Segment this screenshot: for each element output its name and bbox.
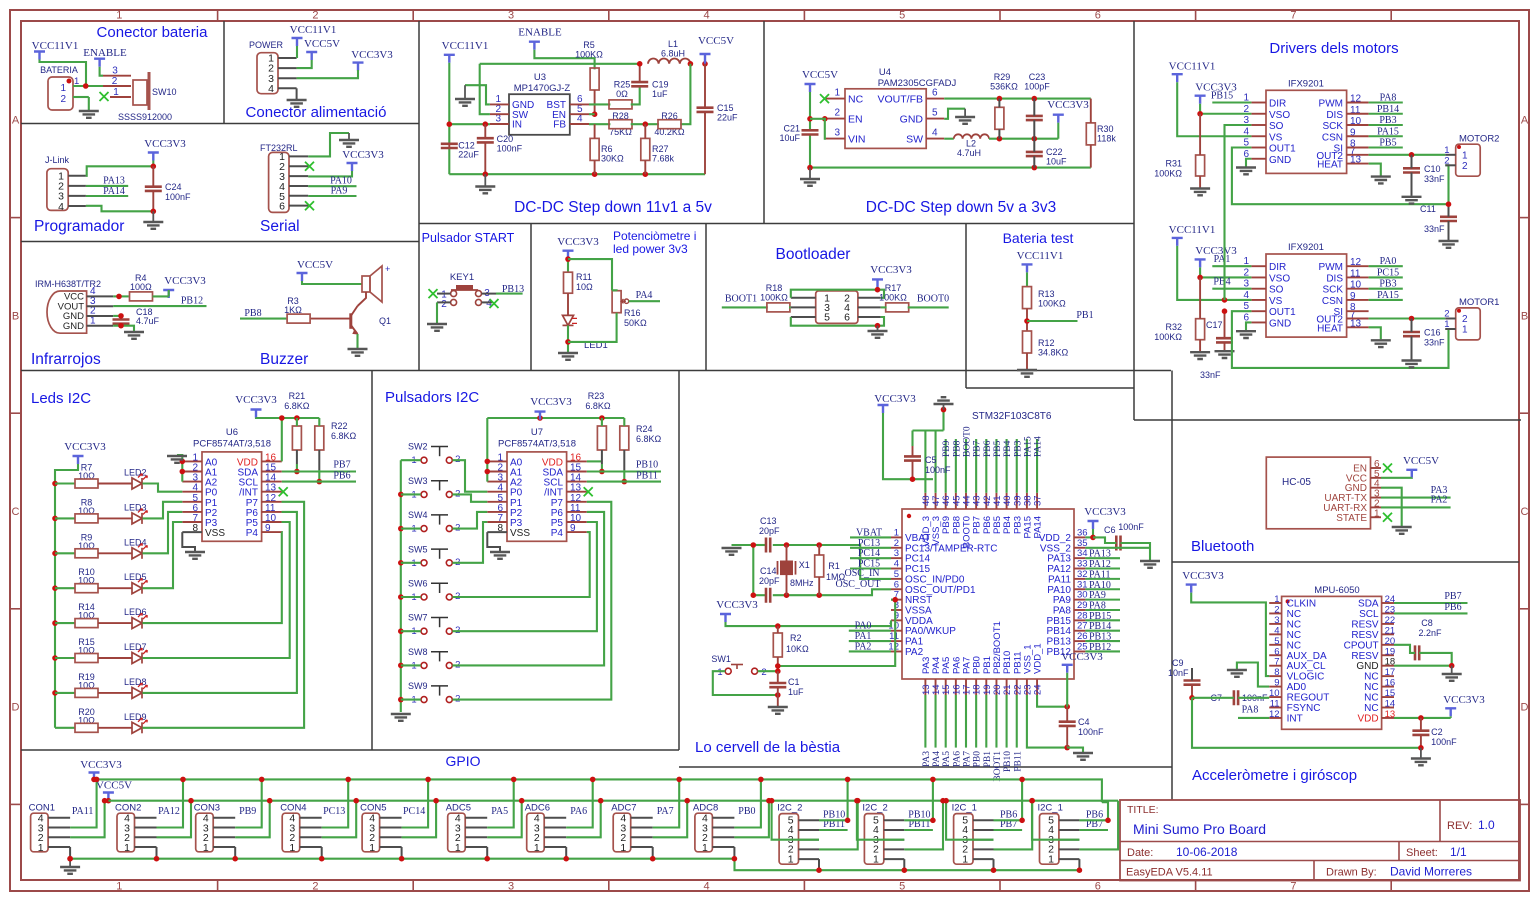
svg-text:PA5: PA5 — [942, 751, 952, 767]
svg-text:2: 2 — [1274, 604, 1279, 615]
svg-text:SW9: SW9 — [408, 681, 428, 691]
no-connect X KEY1 pin1 — [429, 289, 438, 298]
svg-text:VCC3V3: VCC3V3 — [1195, 82, 1237, 94]
svg-text:D: D — [12, 702, 20, 714]
net VCC3V3 stm32 left — [720, 614, 731, 622]
ground ad0 — [1227, 670, 1247, 677]
svg-text:10-06-2018: 10-06-2018 — [1176, 845, 1238, 859]
svg-text:33nF: 33nF — [1424, 338, 1445, 348]
svg-text:B: B — [1521, 310, 1528, 322]
svg-text:PA9: PA9 — [331, 186, 348, 197]
svg-text:VSS: VSS — [205, 528, 225, 539]
ground dcdc2 — [809, 168, 811, 178]
svg-text:MP1470GJ-Z: MP1470GJ-Z — [514, 83, 571, 94]
ground buzzer — [348, 349, 368, 356]
wire U7 vcc top rail — [487, 417, 624, 419]
svg-text:6: 6 — [932, 88, 938, 99]
svg-text:1: 1 — [116, 881, 122, 893]
svg-text:BOOT1: BOOT1 — [993, 751, 1003, 782]
pin stubs ADC5 — [465, 817, 487, 819]
junction vcc bootloader — [875, 287, 881, 293]
wire SW1 right to C1 node — [758, 670, 778, 672]
svg-text:VCC3V3: VCC3V3 — [1195, 245, 1237, 257]
svg-text:HEAT: HEAT — [1317, 323, 1343, 334]
svg-text:22: 22 — [1385, 615, 1396, 626]
svg-text:R22: R22 — [331, 421, 348, 431]
wire CON4 pin3 to 3v3 bus — [322, 779, 349, 827]
wire VCC3V3 stem down — [1057, 123, 1059, 139]
svg-text:16: 16 — [1385, 678, 1396, 689]
svg-text:VCC3V3: VCC3V3 — [235, 394, 277, 406]
net VCC3V3 leds U6 — [251, 410, 262, 418]
wire I2C_1 pin5 pin4 to 3v3 — [994, 779, 1023, 820]
svg-text:Bateria test: Bateria test — [1003, 230, 1074, 246]
svg-text:20: 20 — [1385, 636, 1396, 647]
svg-text:EasyEDA V5.4.11: EasyEDA V5.4.11 — [1126, 867, 1213, 879]
svg-text:GND: GND — [1269, 318, 1291, 329]
junction dcdc2 bottom — [807, 165, 813, 171]
svg-text:Drawn By:: Drawn By: — [1326, 867, 1377, 879]
svg-text:BOOT1: BOOT1 — [725, 294, 757, 305]
wire PB8 to R3 — [240, 318, 286, 320]
net VCC3V3 leds rail — [73, 456, 84, 464]
svg-text:7: 7 — [1290, 881, 1296, 893]
ground bateria — [79, 111, 99, 118]
svg-text:100KΩ: 100KΩ — [1154, 332, 1182, 342]
svg-text:LED9: LED9 — [124, 712, 147, 722]
svg-text:C21: C21 — [783, 124, 800, 134]
net VCC3V3 drivers — [1195, 96, 1206, 104]
net VCC3V3 power — [353, 63, 364, 71]
pin stubs U3 — [490, 103, 509, 105]
wire POWER pin4 to ground — [296, 88, 298, 99]
section box Drivers dels motors — [1133, 21, 1135, 420]
wire I2C_2 pin2 to 5v bus — [904, 801, 943, 850]
svg-text:SW2: SW2 — [408, 442, 428, 452]
capacitor C1 — [769, 683, 786, 687]
wire FT232RL pin1 to ground — [308, 133, 349, 156]
svg-text:MOTOR1: MOTOR1 — [1459, 297, 1499, 308]
svg-text:DC-DC Step down 5v a 3v3: DC-DC Step down 5v a 3v3 — [866, 199, 1056, 216]
svg-text:NC: NC — [1287, 609, 1301, 620]
ground bootloader — [877, 326, 879, 330]
ground dcdc1 — [484, 174, 486, 185]
wire PB1 — [1027, 320, 1078, 322]
net VCC3V3 stm32 top — [878, 405, 889, 413]
svg-text:5: 5 — [932, 108, 938, 119]
svg-text:NC: NC — [1364, 703, 1378, 714]
svg-text:VCC11V1: VCC11V1 — [1169, 61, 1216, 73]
svg-text:R24: R24 — [636, 424, 653, 434]
svg-text:PA4: PA4 — [932, 751, 942, 767]
svg-text:4: 4 — [577, 114, 583, 125]
pin stubs U8 right — [1382, 602, 1394, 604]
svg-text:AUX_DA: AUX_DA — [1287, 651, 1327, 662]
svg-text:1: 1 — [534, 842, 540, 854]
svg-text:VCC11V1: VCC11V1 — [32, 40, 79, 52]
svg-text:X1: X1 — [799, 560, 810, 570]
svg-text:NC: NC — [1287, 630, 1301, 641]
svg-text:100nF: 100nF — [1078, 727, 1104, 737]
svg-text:30KΩ: 30KΩ — [601, 154, 624, 164]
wire U4 GND pin5 to ground — [944, 109, 965, 119]
wire VOUT PB12 — [113, 305, 206, 307]
capacitor C15 — [704, 64, 706, 108]
svg-text:6.8KΩ: 6.8KΩ — [284, 401, 310, 411]
section box Lo cervell bottom — [679, 766, 1172, 768]
svg-text:DIR: DIR — [1269, 262, 1286, 273]
wire INT PA8 — [1238, 717, 1269, 719]
svg-text:LED5: LED5 — [124, 572, 147, 582]
svg-text:PA12: PA12 — [158, 806, 180, 817]
svg-text:VCC11V1: VCC11V1 — [442, 40, 489, 52]
wire CON5 pin3 to 3v3 bus — [402, 779, 429, 827]
svg-text:10nF: 10nF — [1168, 668, 1189, 678]
svg-text:PCF8574AT/3,518: PCF8574AT/3,518 — [498, 438, 576, 449]
capacitor C18 — [120, 316, 122, 320]
svg-text:7: 7 — [1274, 657, 1279, 668]
border column ticks top — [217, 10, 219, 21]
svg-text:PB14: PB14 — [1047, 626, 1072, 637]
svg-text:Conector alimentació: Conector alimentació — [246, 104, 387, 121]
svg-text:R29: R29 — [994, 72, 1011, 82]
svg-text:VLOGIC: VLOGIC — [1287, 672, 1325, 683]
junction EN nodes — [807, 116, 813, 122]
svg-text:Programador: Programador — [34, 218, 124, 235]
svg-text:Mini Sumo Pro Board: Mini Sumo Pro Board — [1133, 821, 1266, 837]
svg-text:4: 4 — [58, 201, 64, 213]
svg-text:1/1: 1/1 — [1450, 845, 1467, 859]
svg-text:2: 2 — [834, 108, 840, 119]
wires SW6-SW9 to U7 P7-P4 wrap — [452, 532, 589, 597]
svg-text:C4: C4 — [1078, 717, 1090, 727]
pin stubs CON3 — [213, 817, 235, 819]
svg-text:PB10: PB10 — [636, 460, 658, 471]
svg-text:C20: C20 — [497, 134, 514, 144]
svg-text:PA14: PA14 — [1034, 436, 1044, 457]
wire ADC5 pin3 to 3v3 bus — [487, 779, 514, 827]
wire U3 GND pin1 — [465, 85, 490, 104]
net VCC5V dcdc1 — [700, 54, 711, 64]
wire U3 SW pin2 to top line — [480, 64, 490, 114]
svg-text:Lo cervell de la bèstia: Lo cervell de la bèstia — [695, 739, 841, 756]
ground U4 gnd — [964, 109, 966, 116]
wire U6 P7-P4 to LEDs 6-9 — [143, 532, 282, 623]
pin stubs U5 left — [891, 536, 902, 538]
svg-text:VDD_2: VDD_2 — [1039, 533, 1072, 544]
wire SW4 left — [401, 528, 421, 530]
svg-text:DIS: DIS — [1326, 273, 1343, 284]
wire I2C_1 pin2 to 5v bus — [1079, 801, 1118, 850]
wire PA9 — [308, 195, 356, 197]
wire R13 to R12 — [1026, 309, 1028, 331]
svg-text:33nF: 33nF — [1424, 224, 1445, 234]
svg-text:VCC11V1: VCC11V1 — [1169, 224, 1216, 236]
capacitor C19 — [631, 82, 648, 86]
svg-text:ENABLE: ENABLE — [83, 47, 127, 59]
ground bateria test — [1017, 370, 1037, 377]
svg-text:OUT1: OUT1 — [1269, 307, 1296, 318]
wire PA10 — [308, 185, 356, 187]
svg-text:2: 2 — [441, 299, 447, 310]
pin stubs BATERIA — [73, 85, 103, 87]
svg-text:2: 2 — [761, 667, 766, 678]
svg-text:C5: C5 — [925, 455, 937, 465]
svg-text:REGOUT: REGOUT — [1287, 693, 1330, 704]
svg-text:PB9: PB9 — [239, 806, 256, 817]
svg-text:3: 3 — [508, 881, 514, 893]
svg-text:BATERIA: BATERIA — [40, 65, 78, 75]
svg-text:C11: C11 — [1420, 204, 1436, 214]
wire KEY1 pin2 to ground — [436, 302, 438, 323]
wire SW8 left — [401, 664, 421, 666]
no-connect X FT232RL pin2 — [305, 162, 314, 171]
wire SW3 left — [401, 493, 421, 495]
svg-text:VSO: VSO — [1269, 273, 1290, 284]
wire I2C_2 pin5 pin4 to 3v3 — [904, 779, 933, 820]
gpio vcc5v bus — [108, 800, 1118, 802]
net VCC3V3 stm32 right — [1088, 521, 1099, 529]
pin stubs U6 — [182, 460, 202, 462]
section box Pulsador START — [530, 224, 532, 371]
svg-text:1uF: 1uF — [788, 687, 804, 697]
svg-text:INT: INT — [1287, 713, 1303, 724]
svg-text:OSC_OUT/PD1: OSC_OUT/PD1 — [905, 585, 976, 596]
wire EN to VIN — [825, 119, 826, 139]
net VCC3V3 potled — [563, 251, 574, 259]
ground under R3x — [1190, 352, 1210, 359]
svg-text:PA8: PA8 — [1053, 605, 1072, 616]
svg-text:1: 1 — [834, 88, 840, 99]
ground stm32 bottom — [1073, 753, 1093, 760]
svg-text:DIR: DIR — [1269, 99, 1286, 110]
wire U7 address pins to VCC rail — [486, 418, 488, 482]
junction programador bottom — [151, 209, 157, 215]
wire bootloader bottom loop — [791, 317, 878, 326]
wire R3 to Q1 base — [311, 318, 351, 320]
junction node bateria pin1 — [83, 83, 89, 89]
wire PA14 — [86, 195, 128, 197]
wires U5 bottom nets — [924, 695, 926, 748]
svg-text:0Ω: 0Ω — [616, 89, 628, 99]
svg-text:10: 10 — [1269, 688, 1280, 699]
wire SW5 left — [401, 562, 421, 564]
pin stubs ADC6 — [544, 817, 566, 819]
svg-text:PB5: PB5 — [993, 440, 1003, 457]
pin stubs I2C_2 — [884, 819, 905, 821]
svg-text:100KΩ: 100KΩ — [1154, 169, 1182, 179]
net VCC11V1 dcdc1 — [444, 55, 455, 63]
svg-text:KEY1: KEY1 — [450, 272, 474, 283]
wire BATERIA pin1 to SW10 pin2 — [103, 85, 131, 87]
wire UART-TX — [1381, 496, 1451, 498]
wire I2C_2 pin2 to 5v bus — [819, 801, 858, 850]
wire CON1 pin1 to gnd bus — [69, 847, 71, 859]
svg-text:P4: P4 — [246, 528, 259, 539]
svg-text:PA11: PA11 — [72, 806, 94, 817]
svg-text:6: 6 — [1095, 881, 1101, 893]
wire IRM GND pin1 — [113, 326, 134, 331]
capacitor C motor — [1403, 168, 1420, 172]
wire VCC11V1 to VS — [1177, 246, 1251, 300]
svg-text:4: 4 — [704, 10, 710, 22]
svg-text:LED2: LED2 — [124, 468, 147, 478]
svg-text:POWER: POWER — [249, 40, 284, 50]
svg-text:1: 1 — [1048, 853, 1054, 865]
ground C1 — [768, 707, 788, 714]
svg-text:1: 1 — [620, 842, 626, 854]
no-connect X KEY1 pin4 — [490, 299, 499, 308]
wire VCC11V1 to VS — [1177, 82, 1251, 136]
svg-text:6.8uH: 6.8uH — [661, 49, 685, 59]
svg-text:4: 4 — [932, 128, 938, 139]
svg-text:led power 3v3: led power 3v3 — [613, 242, 688, 256]
svg-text:VCC3V3: VCC3V3 — [351, 49, 393, 61]
svg-text:22uF: 22uF — [717, 113, 738, 123]
pin stubs U4 — [826, 98, 845, 100]
wire top BST line — [480, 63, 640, 65]
svg-text:1: 1 — [455, 842, 461, 854]
pin stubs IRM — [87, 295, 114, 297]
no-connect X U6 /INT — [279, 487, 288, 496]
svg-text:37: 37 — [1033, 495, 1044, 506]
svg-text:Conector bateria: Conector bateria — [97, 24, 209, 41]
wire IRM GND pin2 — [113, 315, 121, 317]
section box Programador/Serial — [21, 241, 419, 243]
svg-text:Drivers dels motors: Drivers dels motors — [1269, 40, 1398, 57]
wire SDA PB7 — [282, 470, 356, 472]
svg-text:12: 12 — [1269, 709, 1280, 720]
svg-text:OUT1: OUT1 — [1269, 144, 1296, 155]
ground mpu bottom — [1420, 748, 1422, 758]
svg-text:CPOUT: CPOUT — [1344, 640, 1379, 651]
section box DC-DC 11v1/5v divider — [763, 21, 765, 224]
wire VCC3V3 to POWER pin3 — [297, 70, 358, 78]
junction bottom bus nodes — [483, 171, 489, 177]
svg-text:STM32F103C8T6: STM32F103C8T6 — [972, 411, 1052, 422]
junction L1 right — [688, 61, 694, 67]
svg-text:1: 1 — [717, 667, 722, 678]
pin stubs I2C_1 — [1059, 819, 1080, 821]
gpio ground bus — [70, 859, 1079, 871]
capacitor C4 — [1059, 722, 1076, 726]
wire CON5 pin2 to 5v bus — [402, 801, 437, 838]
wire AD0 to ground — [1237, 663, 1269, 687]
wire CON1 pin2 to 5v bus — [70, 801, 105, 838]
wires U5 top nets — [945, 439, 947, 493]
wire VCC3V3 node — [567, 259, 569, 272]
net VCC3V3 bootloader — [872, 279, 883, 287]
svg-text:LED7: LED7 — [124, 642, 147, 652]
capacitor C motor — [1403, 332, 1420, 336]
svg-text:Leds I2C: Leds I2C — [31, 390, 91, 407]
section box Leds/Pulsadors divider — [371, 371, 373, 751]
wire I2C_2 pin1 to gnd bus — [818, 859, 820, 870]
capacitor C24 — [152, 166, 154, 186]
svg-text:ENABLE: ENABLE — [518, 27, 562, 39]
svg-text:PA6: PA6 — [570, 806, 587, 817]
wire OUT2 to motor — [1369, 154, 1446, 156]
svg-text:8: 8 — [1274, 667, 1279, 678]
pin stubs CON1 — [48, 817, 70, 819]
net VCC3V3 gpio — [89, 773, 100, 781]
svg-text:VCC3V3: VCC3V3 — [1182, 570, 1224, 582]
wire crystal left rail — [752, 545, 754, 595]
svg-text:PA11: PA11 — [1048, 574, 1071, 585]
ground U3 gnd pin — [464, 85, 466, 98]
wire I2C_2 pin3 from 5v bus — [772, 801, 819, 840]
wire J-Link pin1 to VCC3V3 — [86, 166, 153, 176]
wire R16 wiper PA4 — [629, 300, 660, 302]
svg-text:20pF: 20pF — [759, 576, 780, 586]
svg-text:R18: R18 — [766, 283, 783, 293]
svg-text:C16: C16 — [1424, 328, 1441, 338]
svg-text:C10: C10 — [1424, 164, 1441, 174]
svg-text:VOUT/FB: VOUT/FB — [877, 94, 923, 106]
wire ADC7 pin2 to 5v bus — [653, 801, 688, 838]
svg-text:VCC3V3: VCC3V3 — [557, 236, 599, 248]
svg-text:I2C_2: I2C_2 — [777, 803, 802, 814]
svg-text:6: 6 — [279, 201, 285, 213]
svg-text:VCC5V: VCC5V — [297, 259, 333, 271]
svg-text:C14: C14 — [760, 566, 777, 576]
svg-text:PA8: PA8 — [1242, 705, 1259, 716]
svg-text:NC: NC — [1287, 619, 1301, 630]
svg-text:SW6: SW6 — [408, 579, 428, 589]
svg-text:9: 9 — [1274, 678, 1279, 689]
ground U7 VSS — [490, 552, 510, 559]
svg-text:PB1: PB1 — [983, 751, 993, 768]
wire U6 VSS to ground — [182, 532, 195, 551]
svg-text:PA3: PA3 — [922, 751, 932, 767]
svg-text:Buzzer: Buzzer — [260, 351, 308, 368]
svg-text:PA10: PA10 — [1047, 585, 1071, 596]
svg-text:3: 3 — [495, 114, 501, 125]
section box Bateria test bottom — [966, 387, 1134, 389]
capacitor C2 — [1412, 731, 1429, 735]
svg-text:VDD: VDD — [1357, 713, 1378, 724]
ground under C17 — [1215, 351, 1235, 358]
capacitor C5 — [904, 456, 921, 460]
wire speaker to Q1 collector — [358, 292, 367, 306]
svg-text:PB12: PB12 — [181, 296, 203, 307]
svg-text:PB6: PB6 — [333, 471, 350, 482]
pin stubs motor — [1445, 154, 1455, 156]
wire C4 gnd — [1067, 748, 1083, 752]
svg-text:100KΩ: 100KΩ — [760, 293, 788, 303]
wire ADC6 pin2 to 5v bus — [566, 801, 601, 838]
wire FB row — [589, 123, 610, 125]
ic HC-05 — [1266, 457, 1370, 529]
net VCC11V1 drivers — [1172, 238, 1183, 246]
wire J-Link pin4 to gnd rail — [86, 206, 153, 212]
svg-text:10Ω: 10Ω — [576, 282, 593, 292]
wire PA13 — [86, 185, 128, 187]
svg-text:VCC3V3: VCC3V3 — [342, 149, 384, 161]
svg-text:SCK: SCK — [1322, 285, 1343, 296]
pin stubs U5 top — [924, 493, 926, 509]
svg-text:GND: GND — [1269, 155, 1291, 166]
wire ADC7 pin1 to gnd bus — [652, 847, 654, 859]
svg-text:5: 5 — [824, 312, 830, 324]
ground mpu gnd18 — [1451, 666, 1453, 673]
wire L1 to FB divider — [680, 64, 690, 124]
junction C19 top — [637, 61, 643, 67]
svg-text:R17: R17 — [885, 283, 902, 293]
pin stubs bootloader — [791, 297, 816, 299]
capacitor C20 — [484, 124, 486, 138]
svg-text:Pulsadors I2C: Pulsadors I2C — [385, 389, 479, 406]
